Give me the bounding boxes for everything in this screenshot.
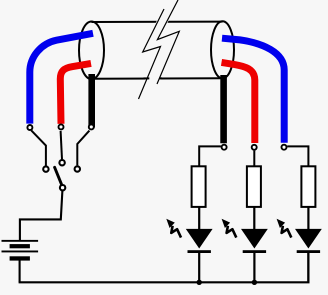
wire red left [60,63,91,123]
resistor R2 [247,166,261,207]
switch S1 lever [55,167,62,185]
wire black terminal to R1 [199,146,221,166]
wire R1 to D1 [198,207,200,230]
wire blue right [222,38,284,143]
LED D2 triangle [241,229,268,249]
wire blue left [30,33,93,123]
terminal blue left [27,125,32,130]
LED D1 triangle [186,229,213,249]
LED D1 emission arrow [166,219,181,238]
terminal black left [89,124,94,129]
cable left end ellipse [79,22,104,80]
junction dot rail D1 [197,280,202,285]
break bolt right stroke [157,0,179,84]
terminal black right [222,145,227,150]
wire battery negative down [19,260,21,282]
terminal red left [59,124,64,129]
switch S1 wire from black terminal [77,131,89,166]
wire red right [222,62,255,143]
break bolt halo [139,0,180,99]
wire D1 to rail [198,253,200,283]
LED D1 cathode bar [188,250,211,253]
cable sheath bottom line patch right [159,77,162,79]
switch S1 contact 3 [75,166,80,171]
switch S1 wire from blue terminal [31,130,46,166]
battery BT1 plate long 2 [2,251,39,253]
cable sheath bottom line patch left [144,77,150,79]
wire red terminal to R2 [253,151,255,167]
switch S1 wire from red terminal [61,131,62,160]
break bolt left stroke [139,9,165,99]
LED D3 triangle [295,229,322,249]
battery BT1 plate short 2 [10,256,30,260]
LED D3 cathode bar [297,250,320,253]
switch S1 contact 1 [43,166,48,171]
wire R2 to D2 [253,207,255,230]
LED D2 cathode bar [243,250,266,253]
wire D3 to rail [307,253,309,283]
junction dot rail D2 [252,280,257,285]
battery BT1 plate short 1 [10,244,30,248]
cable right end ellipse [211,21,234,78]
terminal red right [252,145,257,150]
wire black right [220,75,227,143]
cable sheath bottom line [92,77,223,80]
bottom rail wire [19,252,309,283]
terminal blue right [282,145,287,150]
wire pole to battery [20,191,63,241]
switch S1 pole [60,185,65,190]
resistor R1 [192,166,206,207]
resistor R3 [301,166,315,207]
wire black left [88,74,95,128]
battery BT1 plate long 1 [2,240,39,242]
wire D2 to rail [253,253,255,283]
cable sheath top line [92,21,223,23]
LED D3 emission arrow [277,219,292,238]
LED D2 emission arrow [222,219,237,238]
switch S1 contact 2 [59,160,64,165]
wire blue terminal to R3 [287,146,308,166]
wire R3 to D3 [307,207,309,230]
